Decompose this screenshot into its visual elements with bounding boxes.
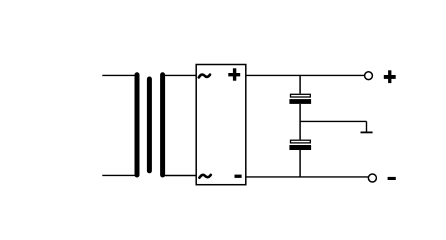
bridge rectifier AC input symbol ~ (bottom): [199, 175, 210, 178]
transformer T1 core bar: [147, 79, 152, 171]
wire top rail to C1: [299, 75, 301, 93]
capacitor C1 negative plate (solid): [289, 99, 311, 104]
transformer T1 primary winding bar: [135, 75, 140, 175]
wire C1 to C2: [299, 104, 301, 140]
capacitor C2 positive plate (hollow): [291, 140, 311, 143]
wire bridge + output to positive terminal: [246, 74, 364, 76]
bridge rectifier + output label (inside top right): [228, 68, 240, 80]
bridge rectifier - output label (inside bottom right): [235, 175, 242, 178]
label + at positive terminal: [384, 70, 396, 83]
negative output terminal: [368, 174, 376, 182]
wire C2 to bottom rail: [299, 150, 301, 177]
transformer T1 secondary winding bar: [160, 75, 165, 175]
bridge rectifier U1 body: [196, 65, 246, 185]
bridge rectifier AC input symbol ~ (top): [199, 75, 210, 78]
wire primary bottom: [102, 174, 136, 176]
label - at negative terminal: [388, 177, 396, 180]
ground: [361, 131, 373, 133]
positive output terminal: [365, 72, 373, 80]
wire midpoint junction to ground: [300, 121, 366, 132]
wire secondary bottom to bridge: [162, 175, 196, 177]
capacitor C1 positive plate (hollow): [291, 94, 311, 97]
wire primary top: [102, 74, 136, 76]
wire secondary top to bridge: [162, 74, 196, 76]
wire bridge - output to negative terminal: [246, 176, 368, 178]
capacitor C2 negative plate (solid): [289, 145, 311, 150]
